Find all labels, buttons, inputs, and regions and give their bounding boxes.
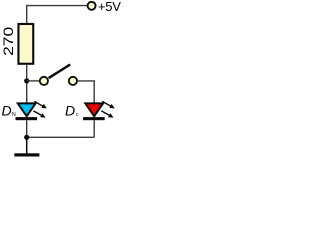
LED Dn cathode bar: [16, 117, 38, 120]
LED Dn light arrow 1: [34, 101, 47, 108]
wire: top run from resistor to +5V terminal: [27, 6, 87, 23]
node junction B: [24, 135, 29, 140]
switch S1 lever: [49, 65, 71, 79]
svg-text:270: 270: [2, 26, 17, 55]
svg-text:+5V: +5V: [98, 0, 121, 14]
wire: resistor bottom down through junction to LED Dn: [26, 65, 28, 104]
ground: [14, 153, 39, 156]
node junction A: [24, 78, 29, 83]
LED Dc cathode bar: [83, 117, 105, 120]
wire: switch to LED Dc: [78, 81, 95, 104]
LED Dn triangle (cyan): [18, 103, 36, 116]
svg-text:N: N: [12, 112, 16, 118]
wire: junction to switch pole: [27, 80, 40, 82]
terminal +5V: [88, 2, 96, 10]
switch S1 pole contact: [40, 77, 48, 85]
svg-text:D: D: [65, 102, 75, 118]
LED Dn light arrow 2: [33, 111, 45, 118]
svg-text:D: D: [2, 103, 12, 119]
LED Dc triangle (red): [85, 103, 103, 116]
wire: ground stub: [26, 137, 28, 153]
svg-text:c: c: [76, 112, 79, 118]
wire: LED Dc to bottom rail: [93, 120, 95, 137]
LED Dc light arrow 1: [102, 101, 115, 108]
switch S1 throw contact: [69, 77, 77, 85]
LED Dc light arrow 2: [101, 111, 113, 118]
wire: LED Dn to bottom rail: [26, 120, 28, 137]
resistor R 270: [18, 24, 33, 64]
wire: bottom rail: [27, 136, 95, 138]
